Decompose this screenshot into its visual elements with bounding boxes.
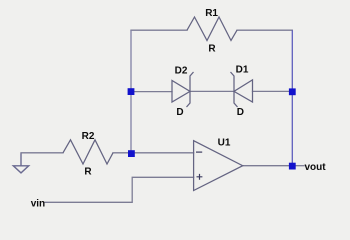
svg-text:U1: U1 — [218, 138, 231, 149]
svg-text:R: R — [84, 167, 92, 178]
svg-text:D: D — [176, 107, 183, 118]
svg-text:D1: D1 — [236, 65, 249, 76]
svg-text:vin: vin — [31, 199, 45, 210]
svg-text:D2: D2 — [175, 66, 188, 77]
svg-text:R: R — [208, 44, 216, 55]
svg-text:R1: R1 — [205, 8, 218, 19]
svg-text:vout: vout — [305, 162, 327, 173]
svg-text:R2: R2 — [82, 131, 95, 142]
svg-text:D: D — [237, 107, 244, 118]
